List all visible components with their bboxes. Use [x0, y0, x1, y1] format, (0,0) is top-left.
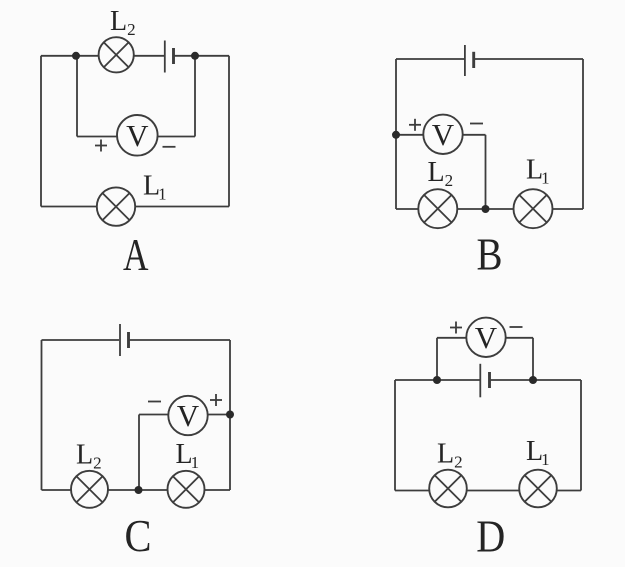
svg-text:V: V — [126, 118, 149, 153]
svg-text:L1: L1 — [526, 155, 550, 188]
svg-text:L2: L2 — [437, 438, 463, 471]
svg-text:V: V — [177, 398, 200, 433]
svg-text:B: B — [477, 229, 503, 280]
svg-text:L2: L2 — [76, 440, 102, 473]
svg-text:L1: L1 — [143, 171, 167, 204]
svg-text:L2: L2 — [110, 6, 136, 39]
svg-text:L1: L1 — [176, 439, 200, 472]
svg-text:D: D — [476, 511, 505, 562]
svg-text:L2: L2 — [428, 157, 454, 190]
svg-text:A: A — [123, 229, 149, 280]
svg-text:C: C — [125, 510, 152, 561]
svg-text:V: V — [475, 320, 498, 355]
svg-text:V: V — [432, 117, 455, 152]
svg-text:L1: L1 — [526, 436, 550, 469]
